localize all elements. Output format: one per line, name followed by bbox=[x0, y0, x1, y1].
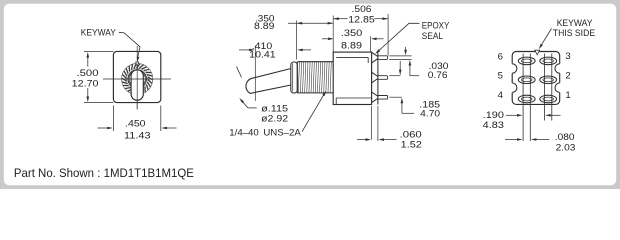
svg-text:Part No. Shown : 1MD1T1B1M1QE: Part No. Shown : 1MD1T1B1M1QE bbox=[14, 166, 194, 180]
svg-text:10.41: 10.41 bbox=[249, 49, 276, 60]
svg-text:8.89: 8.89 bbox=[341, 40, 362, 51]
svg-text:KEYWAY: KEYWAY bbox=[557, 18, 593, 28]
svg-text:11.43: 11.43 bbox=[124, 131, 151, 142]
svg-text:.350: .350 bbox=[341, 28, 363, 39]
svg-text:1/4–40 UNS–2A: 1/4–40 UNS–2A bbox=[229, 128, 301, 138]
svg-text:1.52: 1.52 bbox=[401, 139, 422, 150]
svg-text:1: 1 bbox=[565, 90, 570, 101]
svg-text:12.70: 12.70 bbox=[72, 79, 99, 90]
svg-text:2.03: 2.03 bbox=[556, 142, 576, 153]
svg-text:5: 5 bbox=[498, 71, 503, 82]
svg-text:4: 4 bbox=[498, 90, 504, 101]
svg-text:8.89: 8.89 bbox=[254, 21, 275, 32]
svg-text:0.76: 0.76 bbox=[428, 70, 448, 81]
svg-text:ø2.92: ø2.92 bbox=[261, 114, 288, 125]
svg-text:.450: .450 bbox=[125, 118, 146, 129]
svg-text:12.85: 12.85 bbox=[348, 14, 375, 25]
svg-text:3: 3 bbox=[565, 51, 570, 62]
svg-text:4.83: 4.83 bbox=[483, 120, 504, 131]
svg-text:6: 6 bbox=[498, 51, 503, 62]
svg-text:SEAL: SEAL bbox=[422, 31, 444, 42]
svg-text:THIS SIDE: THIS SIDE bbox=[553, 28, 595, 38]
svg-text:4.70: 4.70 bbox=[420, 108, 440, 119]
svg-text:2: 2 bbox=[565, 71, 570, 82]
svg-text:KEYWAY: KEYWAY bbox=[81, 28, 116, 38]
